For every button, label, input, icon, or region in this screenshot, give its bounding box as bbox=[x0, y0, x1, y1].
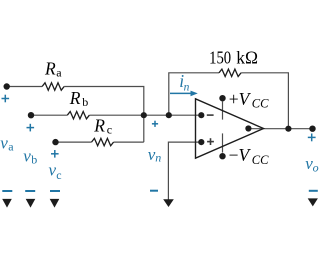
svg-text:+V: +V bbox=[229, 89, 252, 109]
svg-text:b: b bbox=[31, 153, 37, 167]
svg-text:CC: CC bbox=[252, 153, 269, 167]
svg-text:c: c bbox=[107, 122, 112, 136]
svg-text:n: n bbox=[184, 81, 190, 93]
svg-text:n: n bbox=[155, 150, 161, 164]
svg-text:c: c bbox=[56, 168, 61, 182]
svg-text:kΩ: kΩ bbox=[236, 48, 258, 68]
svg-text:a: a bbox=[8, 140, 14, 154]
svg-text:−V: −V bbox=[229, 145, 252, 165]
svg-text:v: v bbox=[0, 134, 8, 153]
svg-text:a: a bbox=[56, 65, 62, 79]
svg-text:o: o bbox=[313, 161, 319, 175]
svg-text:b: b bbox=[82, 95, 88, 109]
svg-text:R: R bbox=[93, 116, 105, 136]
svg-text:v: v bbox=[23, 146, 31, 165]
svg-text:150: 150 bbox=[209, 47, 231, 68]
svg-text:CC: CC bbox=[252, 97, 269, 111]
svg-text:R: R bbox=[44, 59, 56, 79]
svg-text:R: R bbox=[69, 88, 81, 108]
